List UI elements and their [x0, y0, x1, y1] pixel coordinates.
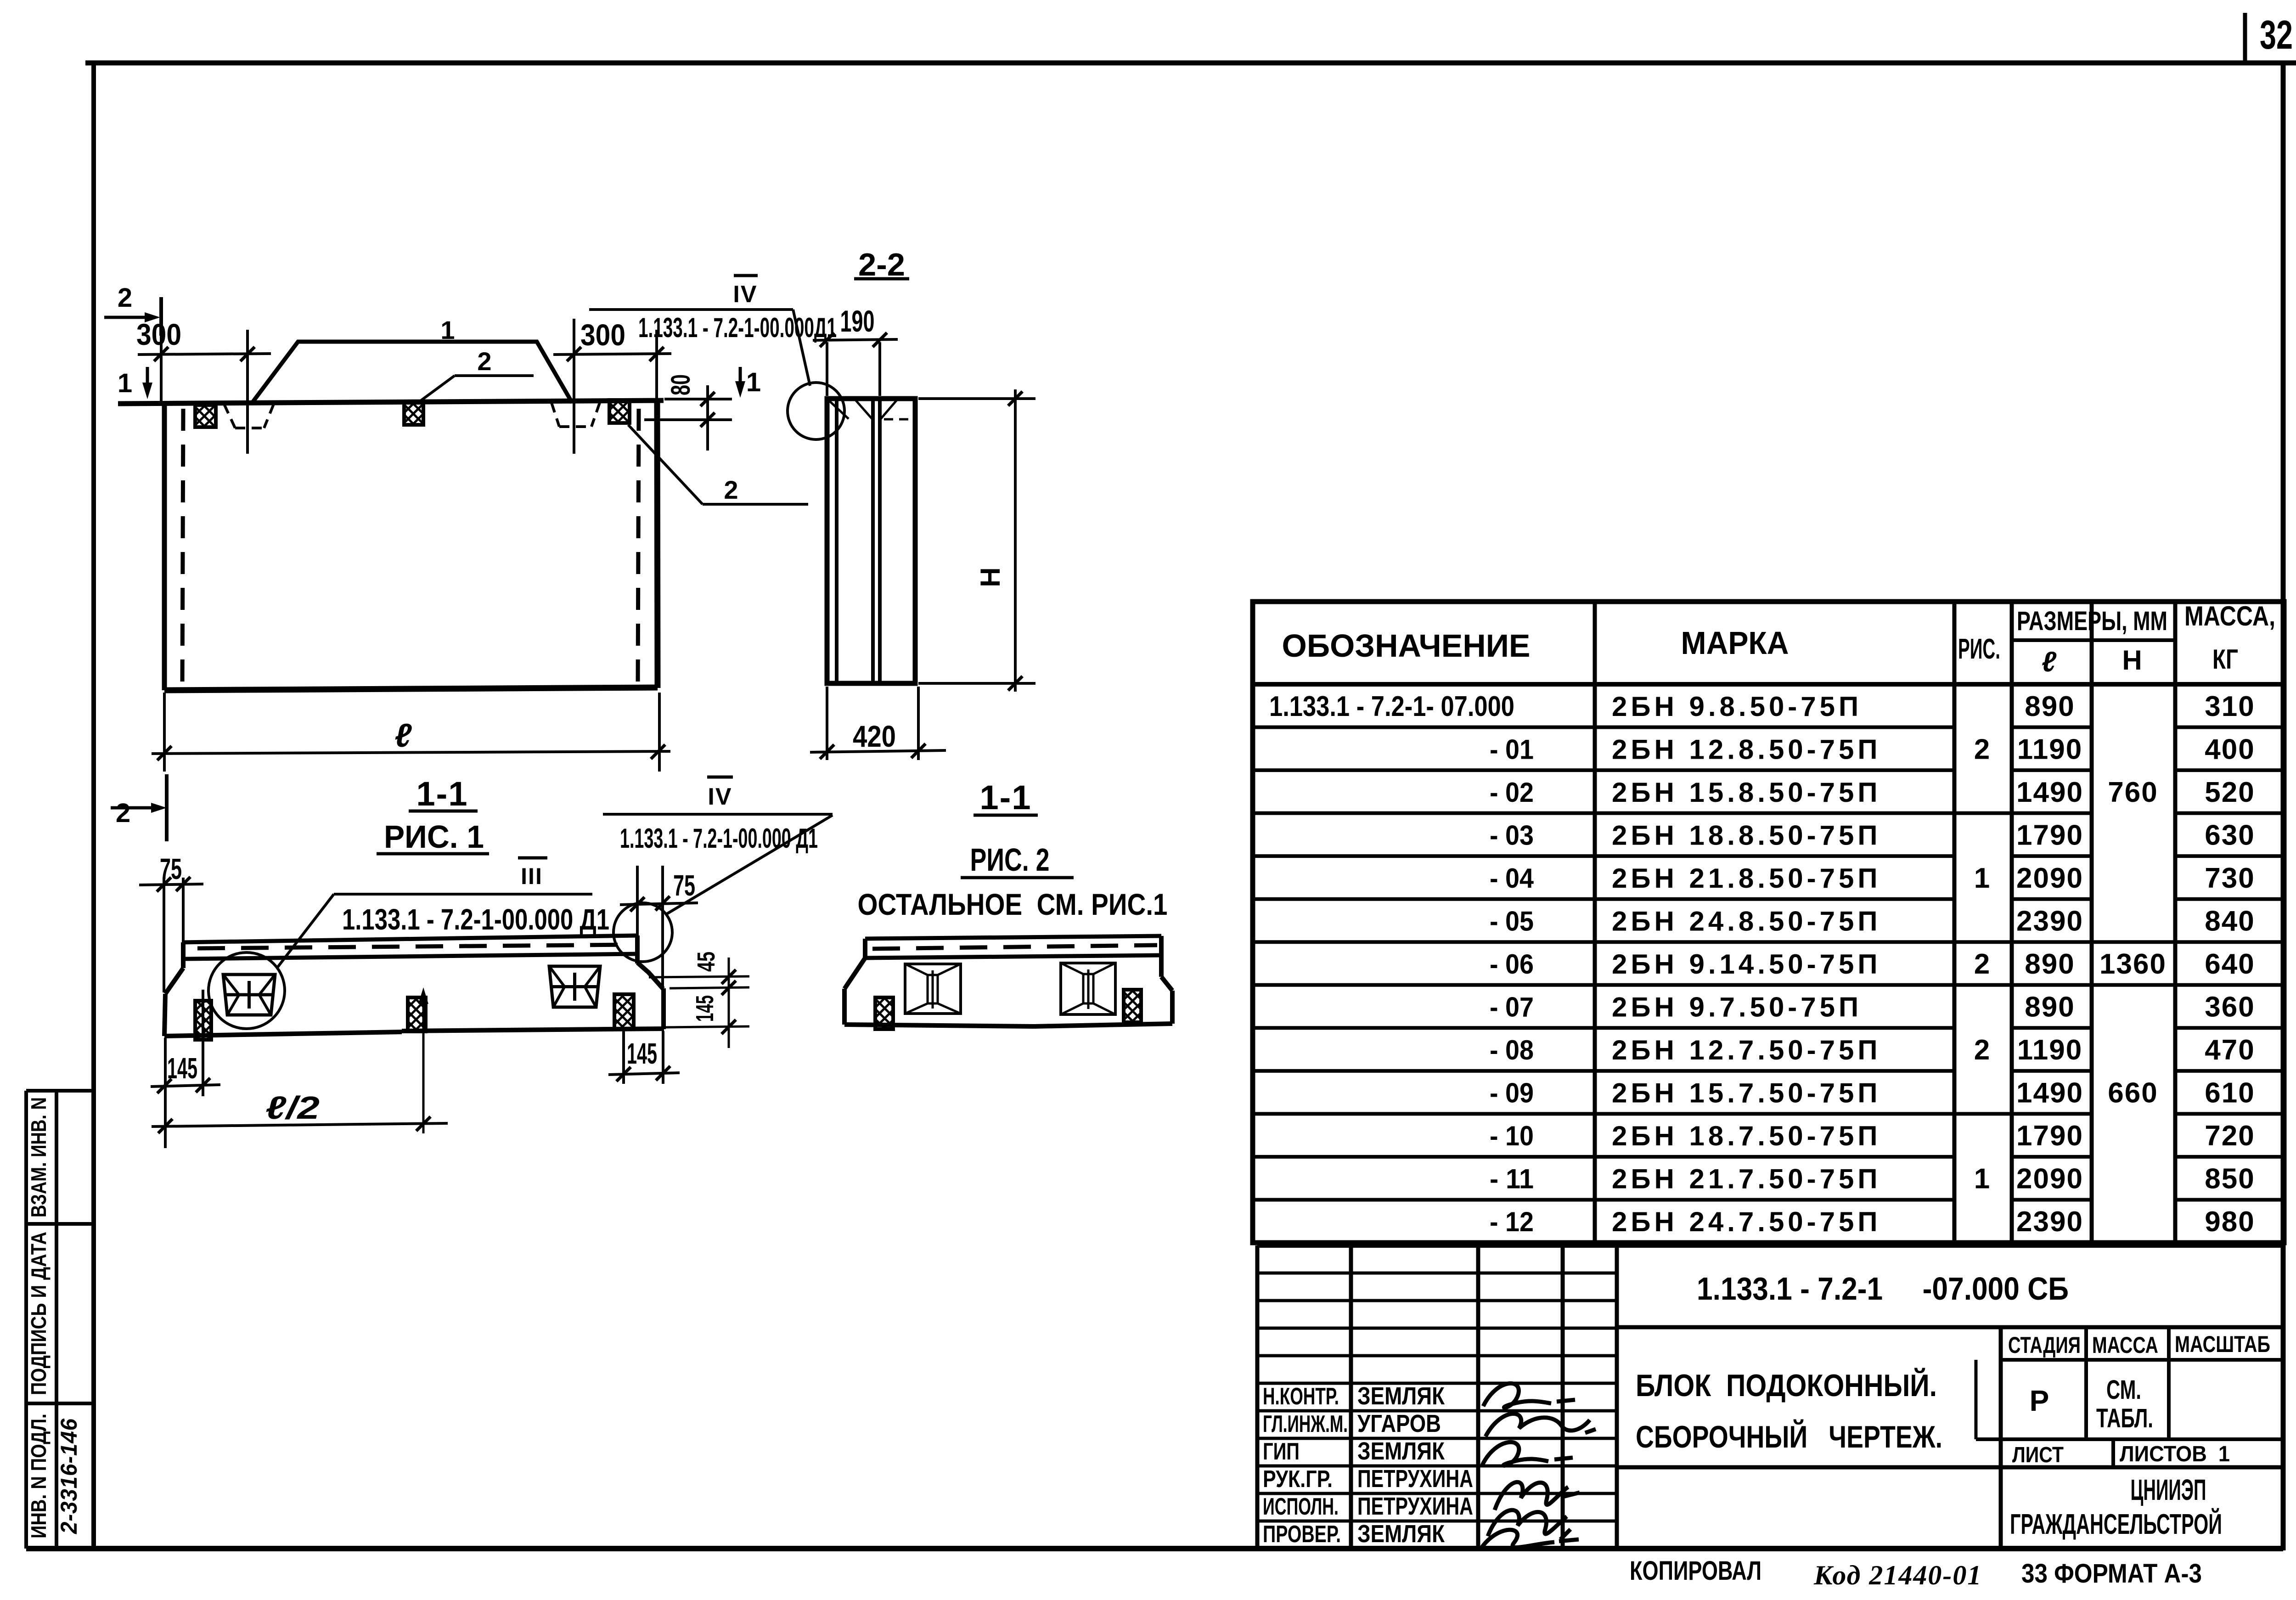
svg-text:ГИП: ГИП — [1263, 1438, 1300, 1465]
svg-text:630: 630 — [2205, 819, 2255, 851]
svg-text:145: 145 — [691, 995, 719, 1022]
svg-text:2БН 18.7.50-75П: 2БН 18.7.50-75П — [1612, 1121, 1881, 1151]
svg-text:ОБОЗНАЧЕНИЕ: ОБОЗНАЧЕНИЕ — [1282, 628, 1531, 664]
svg-text:Н: Н — [975, 567, 1006, 587]
svg-text:МАРКА: МАРКА — [1681, 625, 1789, 661]
svg-text:45: 45 — [692, 952, 720, 972]
svg-text:145: 145 — [167, 1052, 197, 1085]
svg-text:1790: 1790 — [2016, 1120, 2083, 1152]
svg-text:- 05: - 05 — [1490, 906, 1534, 936]
svg-text:1.133.1 - 7.2-1-00.000 Д1: 1.133.1 - 7.2-1-00.000 Д1 — [342, 903, 609, 936]
svg-text:640: 640 — [2205, 948, 2255, 980]
svg-text:- 10: - 10 — [1490, 1121, 1534, 1151]
svg-text:МАСШТАБ: МАСШТАБ — [2175, 1331, 2270, 1357]
svg-text:- 06: - 06 — [1490, 949, 1534, 980]
svg-text:2БН 15.8.50-75П: 2БН 15.8.50-75П — [1612, 777, 1881, 808]
svg-text:РИС. 2: РИС. 2 — [970, 842, 1050, 878]
svg-text:- 01: - 01 — [1490, 734, 1534, 765]
svg-text:1: 1 — [1974, 1163, 1990, 1195]
svg-text:1490: 1490 — [2016, 1077, 2083, 1109]
svg-text:ГЛ.ИНЖ.М.: ГЛ.ИНЖ.М. — [1263, 1411, 1348, 1437]
svg-text:400: 400 — [2205, 733, 2255, 765]
svg-text:32: 32 — [2260, 12, 2293, 57]
svg-text:2090: 2090 — [2016, 1163, 2083, 1195]
svg-text:890: 890 — [2025, 691, 2075, 722]
svg-text:2090: 2090 — [2016, 862, 2083, 894]
svg-text:1490: 1490 — [2016, 777, 2083, 808]
svg-text:ЛИСТОВ 1: ЛИСТОВ 1 — [2120, 1442, 2230, 1466]
svg-text:730: 730 — [2205, 862, 2255, 894]
svg-text:ℓ/2: ℓ/2 — [265, 1090, 320, 1126]
svg-text:720: 720 — [2205, 1120, 2255, 1152]
svg-text:1.133.1 - 7.2-1-00.000Д1: 1.133.1 - 7.2-1-00.000Д1 — [638, 312, 837, 343]
svg-text:420: 420 — [853, 719, 896, 753]
svg-text:ПРОВЕР.: ПРОВЕР. — [1263, 1521, 1341, 1548]
svg-text:ГРАЖДАНСЕЛЬСТРОЙ: ГРАЖДАНСЕЛЬСТРОЙ — [2010, 1508, 2222, 1540]
svg-text:145: 145 — [627, 1037, 657, 1070]
svg-text:1-1: 1-1 — [980, 778, 1032, 817]
svg-text:- 09: - 09 — [1490, 1078, 1534, 1109]
svg-text:- 08: - 08 — [1490, 1035, 1534, 1065]
svg-text:2390: 2390 — [2016, 1206, 2083, 1238]
svg-text:1790: 1790 — [2016, 819, 2083, 851]
svg-text:890: 890 — [2025, 948, 2075, 980]
svg-text:75: 75 — [673, 869, 695, 902]
svg-text:1: 1 — [746, 367, 761, 397]
svg-text:IV: IV — [708, 783, 732, 810]
svg-text:ОСТАЛЬНОЕ СМ. РИС.1: ОСТАЛЬНОЕ СМ. РИС.1 — [858, 887, 1168, 921]
svg-text:ПОДПИСЬ И ДАТА: ПОДПИСЬ И ДАТА — [27, 1232, 51, 1395]
svg-text:300: 300 — [580, 318, 625, 352]
svg-text:2БН 12.8.50-75П: 2БН 12.8.50-75П — [1612, 734, 1881, 765]
svg-text:ИСПОЛН.: ИСПОЛН. — [1263, 1493, 1339, 1520]
svg-text:2БН 15.7.50-75П: 2БН 15.7.50-75П — [1612, 1078, 1881, 1109]
svg-text:СБОРОЧНЫЙ ЧЕРТЕЖ.: СБОРОЧНЫЙ ЧЕРТЕЖ. — [1636, 1419, 1942, 1454]
svg-text:ℓ: ℓ — [2042, 646, 2057, 678]
svg-text:ЗЕМЛЯК: ЗЕМЛЯК — [1357, 1382, 1445, 1410]
svg-text:520: 520 — [2205, 777, 2255, 808]
svg-text:IV: IV — [733, 281, 757, 308]
svg-text:300: 300 — [136, 317, 181, 351]
svg-text:2: 2 — [1974, 1034, 1990, 1066]
svg-text:1: 1 — [1974, 862, 1990, 894]
svg-text:1.133.1 - 7.2-1 -07.000 СБ: 1.133.1 - 7.2-1 -07.000 СБ — [1697, 1271, 2069, 1307]
svg-text:МАССА,: МАССА, — [2184, 601, 2275, 631]
svg-text:660: 660 — [2108, 1077, 2158, 1109]
svg-text:980: 980 — [2205, 1206, 2255, 1238]
svg-text:1: 1 — [440, 315, 455, 344]
svg-text:УГАРОВ: УГАРОВ — [1357, 1410, 1441, 1437]
svg-text:190: 190 — [840, 304, 875, 338]
svg-text:КГ: КГ — [2212, 644, 2238, 675]
svg-text:- 04: - 04 — [1490, 863, 1534, 894]
svg-text:2: 2 — [1974, 733, 1990, 765]
svg-text:ЗЕМЛЯК: ЗЕМЛЯК — [1357, 1520, 1445, 1548]
svg-text:760: 760 — [2108, 777, 2158, 808]
svg-text:1190: 1190 — [2017, 733, 2083, 765]
svg-text:- 12: - 12 — [1490, 1206, 1534, 1237]
svg-text:890: 890 — [2025, 992, 2075, 1023]
svg-text:Н.КОНТР.: Н.КОНТР. — [1263, 1383, 1339, 1410]
svg-text:2БН 21.7.50-75П: 2БН 21.7.50-75П — [1612, 1164, 1881, 1194]
svg-text:СТАДИЯ: СТАДИЯ — [2008, 1332, 2081, 1358]
svg-text:Код 21440-01: Код 21440-01 — [1813, 1560, 1982, 1590]
svg-text:III: III — [521, 863, 543, 889]
svg-text:КОПИРОВАЛ: КОПИРОВАЛ — [1630, 1556, 1761, 1586]
svg-text:2БН 18.8.50-75П: 2БН 18.8.50-75П — [1612, 820, 1881, 851]
svg-text:1.133.1 - 7.2-1-00.000 Д1: 1.133.1 - 7.2-1-00.000 Д1 — [620, 823, 818, 854]
svg-text:2: 2 — [477, 347, 491, 376]
svg-text:Р: Р — [2030, 1384, 2049, 1417]
svg-text:РУК.ГР.: РУК.ГР. — [1263, 1466, 1333, 1493]
svg-text:80: 80 — [666, 374, 696, 395]
svg-text:2БН 24.7.50-75П: 2БН 24.7.50-75П — [1612, 1206, 1881, 1237]
svg-text:- 02: - 02 — [1490, 777, 1534, 808]
svg-text:ЦНИИЭП: ЦНИИЭП — [2131, 1473, 2206, 1506]
svg-text:- 11: - 11 — [1490, 1164, 1534, 1194]
svg-text:1.133.1 - 7.2-1- 07.000: 1.133.1 - 7.2-1- 07.000 — [1269, 691, 1514, 722]
svg-text:Н: Н — [2122, 645, 2142, 676]
svg-text:ПЕТРУХИНА: ПЕТРУХИНА — [1357, 1465, 1473, 1493]
svg-text:РИС. 1: РИС. 1 — [384, 819, 484, 855]
svg-text:ЛИСТ: ЛИСТ — [2012, 1443, 2064, 1467]
svg-text:1: 1 — [118, 368, 132, 398]
svg-text:ВЗАМ. ИНВ. N: ВЗАМ. ИНВ. N — [27, 1097, 51, 1217]
svg-text:310: 310 — [2205, 691, 2255, 722]
svg-text:2БН 9.8.50-75П: 2БН 9.8.50-75П — [1612, 691, 1862, 722]
svg-text:2-2: 2-2 — [858, 247, 905, 282]
svg-text:2БН 9.7.50-75П: 2БН 9.7.50-75П — [1612, 992, 1862, 1023]
svg-text:33 ФОРМАТ А-3: 33 ФОРМАТ А-3 — [2021, 1559, 2202, 1589]
svg-text:- 03: - 03 — [1490, 820, 1534, 851]
svg-text:ℓ: ℓ — [394, 717, 412, 754]
svg-text:1-1: 1-1 — [416, 775, 468, 813]
svg-text:- 07: - 07 — [1490, 992, 1534, 1023]
svg-text:75: 75 — [160, 852, 182, 885]
svg-text:2: 2 — [1974, 948, 1990, 980]
svg-text:1360: 1360 — [2099, 948, 2167, 980]
svg-text:1190: 1190 — [2017, 1034, 2083, 1066]
svg-text:850: 850 — [2205, 1163, 2255, 1195]
svg-text:БЛОК ПОДОКОННЫЙ.: БЛОК ПОДОКОННЫЙ. — [1636, 1368, 1937, 1403]
svg-text:2БН 9.14.50-75П: 2БН 9.14.50-75П — [1612, 949, 1881, 980]
svg-text:РАЗМЕРЫ, ММ: РАЗМЕРЫ, ММ — [2017, 606, 2167, 636]
svg-text:МАССА: МАССА — [2092, 1332, 2158, 1358]
svg-text:840: 840 — [2205, 905, 2255, 937]
svg-text:2БН 21.8.50-75П: 2БН 21.8.50-75П — [1612, 863, 1881, 894]
svg-text:610: 610 — [2205, 1077, 2255, 1109]
svg-text:ИНВ. N ПОДЛ.: ИНВ. N ПОДЛ. — [27, 1414, 51, 1538]
svg-text:470: 470 — [2205, 1034, 2255, 1066]
svg-text:2БН 24.8.50-75П: 2БН 24.8.50-75П — [1612, 906, 1881, 936]
svg-text:СМ.: СМ. — [2106, 1375, 2141, 1405]
svg-text:ТАБЛ.: ТАБЛ. — [2096, 1403, 2153, 1433]
svg-text:2: 2 — [724, 475, 738, 504]
svg-text:2: 2 — [118, 283, 132, 313]
svg-text:360: 360 — [2205, 992, 2255, 1023]
svg-text:2-3316-146: 2-3316-146 — [56, 1418, 82, 1534]
svg-text:2390: 2390 — [2016, 905, 2083, 937]
svg-text:ПЕТРУХИНА: ПЕТРУХИНА — [1357, 1493, 1473, 1520]
svg-text:ЗЕМЛЯК: ЗЕМЛЯК — [1357, 1437, 1445, 1465]
svg-text:2: 2 — [116, 798, 130, 828]
svg-text:2БН 12.7.50-75П: 2БН 12.7.50-75П — [1612, 1035, 1881, 1065]
svg-text:РИС.: РИС. — [1958, 633, 2000, 665]
